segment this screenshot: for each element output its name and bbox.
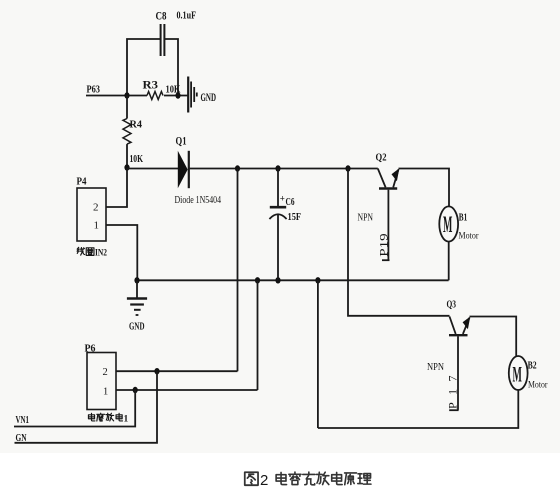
- wire bottom rail to motor B2: [318, 390, 518, 428]
- motor B2: [509, 356, 528, 390]
- svg-text:2: 2: [260, 472, 268, 489]
- svg-text:Motor: Motor: [528, 381, 548, 391]
- svg-text:P63: P63: [87, 84, 101, 96]
- node junction R4/P4/diode: [124, 164, 129, 170]
- node junction bus/C6: [275, 277, 280, 283]
- wire GN line: [15, 371, 158, 443]
- node junction bus/P4-1/GND: [134, 277, 139, 283]
- svg-text:1: 1: [103, 387, 108, 398]
- wire P63 input: [86, 95, 127, 97]
- node junction R3/GND: [175, 92, 180, 98]
- connector P4: [77, 188, 106, 241]
- svg-text:1: 1: [124, 415, 129, 425]
- svg-text:Motor: Motor: [459, 232, 480, 242]
- wire VN1 line: [14, 390, 135, 427]
- motor B1: [439, 206, 458, 241]
- svg-text:GND: GND: [201, 92, 217, 104]
- capacitor C8: [161, 24, 165, 56]
- wire C8 loop left vertical: [127, 39, 160, 96]
- svg-text:+: +: [280, 194, 285, 204]
- svg-text:B2: B2: [528, 361, 537, 372]
- wire R4 top: [126, 96, 128, 119]
- svg-text:Q2: Q2: [376, 152, 387, 164]
- svg-text:P4: P4: [77, 177, 88, 188]
- wire diode anode: [127, 168, 178, 170]
- svg-text:B1: B1: [459, 213, 468, 224]
- label 线圈IN2 of P4: [77, 247, 94, 255]
- node junction P6-1/VN1: [133, 387, 138, 393]
- svg-text:C8: C8: [156, 9, 167, 23]
- svg-text:GND: GND: [129, 321, 145, 333]
- svg-text:15F: 15F: [288, 212, 302, 223]
- wire P4 pin1 to ground bus: [106, 225, 137, 280]
- wire R4 bottom: [126, 144, 128, 168]
- wire bus to bottom rail: [317, 280, 319, 428]
- wire P4 pin2 to R4 junction: [106, 168, 127, 207]
- svg-text:IN2: IN2: [95, 249, 107, 259]
- svg-text:P19: P19: [378, 233, 390, 257]
- node junction diode/C6: [275, 165, 280, 171]
- svg-text:R3: R3: [143, 78, 159, 92]
- wire R3 left: [127, 95, 147, 97]
- connector P6: [87, 353, 116, 410]
- node junction bus/P6-1 branch: [255, 277, 260, 283]
- transistor Q3: [449, 317, 470, 336]
- svg-text:2: 2: [93, 202, 99, 214]
- svg-text:2: 2: [103, 367, 108, 378]
- diode Q1: [178, 151, 189, 188]
- ground GND below bus: [127, 280, 147, 315]
- wire motor B1 to bus: [448, 242, 450, 281]
- wire Q3 base lead P17: [449, 336, 458, 410]
- svg-text:0.1uF: 0.1uF: [177, 10, 197, 22]
- node junction P63/R3: [124, 92, 129, 98]
- node junction diode/Q3-branch: [345, 165, 350, 171]
- wire bus down to P6 pin1 row: [257, 280, 259, 390]
- node junction bus/bottom-branch: [315, 277, 320, 283]
- wire Q3 branch vertical: [348, 169, 450, 316]
- svg-text:10K: 10K: [130, 153, 144, 165]
- resistor R3: [147, 92, 163, 100]
- resistor R4: [123, 119, 131, 145]
- wire diode cathode to Q2: [189, 168, 378, 170]
- svg-text:Diode 1N5404: Diode 1N5404: [175, 194, 222, 206]
- node junction diode/P6-2: [235, 165, 240, 171]
- svg-text:1: 1: [94, 220, 100, 232]
- wire Q2 base lead P19: [382, 190, 390, 261]
- wire C8 loop right vertical: [165, 39, 178, 96]
- wire ground bus horizontal: [137, 279, 449, 281]
- svg-text:C6: C6: [286, 197, 295, 208]
- node junction P6-2/GN: [154, 368, 159, 374]
- svg-text:VN1: VN1: [16, 414, 30, 426]
- svg-text:GN: GN: [16, 432, 27, 444]
- ground sideways GND: [188, 77, 197, 113]
- svg-text:M: M: [443, 212, 452, 238]
- wire Q2 to motor B1: [399, 169, 450, 207]
- wire P6 pin1 row: [116, 389, 258, 391]
- label 电磨放电1 of P6: [88, 413, 122, 421]
- wire P6 pin2 row: [116, 370, 238, 372]
- transistor Q2: [378, 168, 400, 188]
- svg-text:P17: P17: [445, 376, 459, 410]
- svg-text:P6: P6: [85, 344, 96, 355]
- wire R3 right: [164, 95, 188, 97]
- caption 图2 电容充放电原理: [245, 472, 371, 489]
- wire diode junction down to P6 pin2: [237, 169, 239, 372]
- svg-text:NPN: NPN: [427, 361, 444, 373]
- svg-text:R4: R4: [130, 119, 143, 131]
- capacitor C6: [269, 169, 286, 281]
- svg-text:NPN: NPN: [358, 213, 374, 224]
- svg-text:Q1: Q1: [176, 136, 187, 148]
- svg-text:M: M: [513, 362, 522, 387]
- wire Q3 to motor B2: [470, 317, 517, 357]
- svg-text:Q3: Q3: [447, 299, 457, 311]
